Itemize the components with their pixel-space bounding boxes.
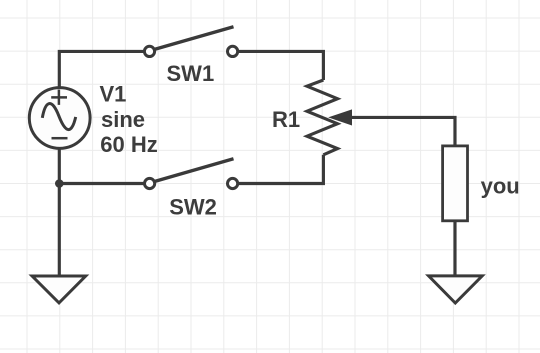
svg-text:V1: V1 bbox=[100, 82, 127, 107]
resistor "you" (box style) bbox=[443, 146, 468, 221]
wire resistor "you" bottom to ground bbox=[453, 221, 456, 276]
switch SW2 bbox=[145, 159, 238, 189]
wire SW2 left to junction node B bbox=[59, 182, 144, 185]
wire V1 top to node A to SW1 left bbox=[59, 51, 144, 89]
wire V1 bottom through node B to ground bbox=[58, 147, 61, 276]
svg-text:60 Hz: 60 Hz bbox=[100, 132, 157, 157]
svg-text:R1: R1 bbox=[272, 107, 300, 132]
svg-text:SW1: SW1 bbox=[167, 61, 215, 86]
switch SW1 bbox=[144, 27, 237, 57]
wire SW1 right to R1 top bbox=[238, 51, 323, 80]
node B junction dot bbox=[55, 179, 64, 188]
ground (left, below V1) bbox=[32, 276, 86, 303]
resistor R1 (potentiometer body zigzag) bbox=[307, 80, 338, 155]
ground (right, below you) bbox=[429, 276, 483, 303]
svg-text:sine: sine bbox=[101, 107, 145, 132]
svg-text:you: you bbox=[481, 174, 520, 199]
voltage source V1 (sine source) bbox=[29, 88, 90, 149]
wire R1 wiper to resistor "you" top bbox=[350, 117, 455, 145]
svg-text:SW2: SW2 bbox=[169, 195, 217, 220]
wire R1 bottom to SW2 right bbox=[238, 155, 323, 184]
R1 wiper arrow bbox=[328, 109, 352, 125]
